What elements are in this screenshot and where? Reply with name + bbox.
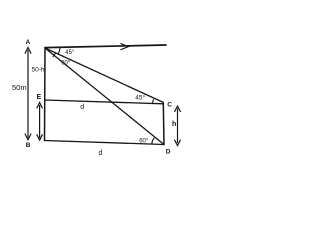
svg-text:C: C: [167, 101, 172, 108]
angle arc 60 at corner A: [53, 53, 56, 57]
wire left edge A-B: [44, 48, 47, 141]
angle arc 45 at C: [153, 99, 154, 103]
svg-text:45°: 45°: [135, 94, 145, 102]
svg-text:60°: 60°: [139, 138, 149, 144]
wire sight line A-D: [45, 48, 164, 145]
svg-text:60°: 60°: [61, 60, 71, 66]
wire line E-C: [45, 100, 164, 104]
svg-text:B: B: [26, 142, 31, 149]
arrowhead on horizontal ray: [121, 43, 129, 49]
svg-text:A: A: [26, 39, 31, 46]
wire right edge C-D: [162, 103, 165, 145]
svg-text:45°: 45°: [65, 50, 75, 56]
angle arc 45 at corner A: [58, 47, 60, 54]
angle arc 60 at D: [152, 138, 154, 144]
svg-text:h: h: [172, 121, 176, 128]
svg-text:50m: 50m: [12, 83, 27, 92]
wire horizontal ray from A: [45, 45, 166, 48]
svg-text:d: d: [80, 104, 84, 111]
svg-text:D: D: [166, 148, 171, 155]
wire sight line A-C: [45, 48, 163, 102]
arrow h left double-headed E to B: [37, 103, 43, 141]
svg-text:E: E: [37, 94, 42, 101]
svg-text:50-h: 50-h: [32, 67, 45, 74]
arrow h right double-headed C to D level: [174, 106, 180, 146]
svg-text:d: d: [99, 150, 103, 157]
wire bottom edge B-D: [45, 141, 165, 145]
arrow 50m double-headed A to B: [25, 48, 31, 140]
